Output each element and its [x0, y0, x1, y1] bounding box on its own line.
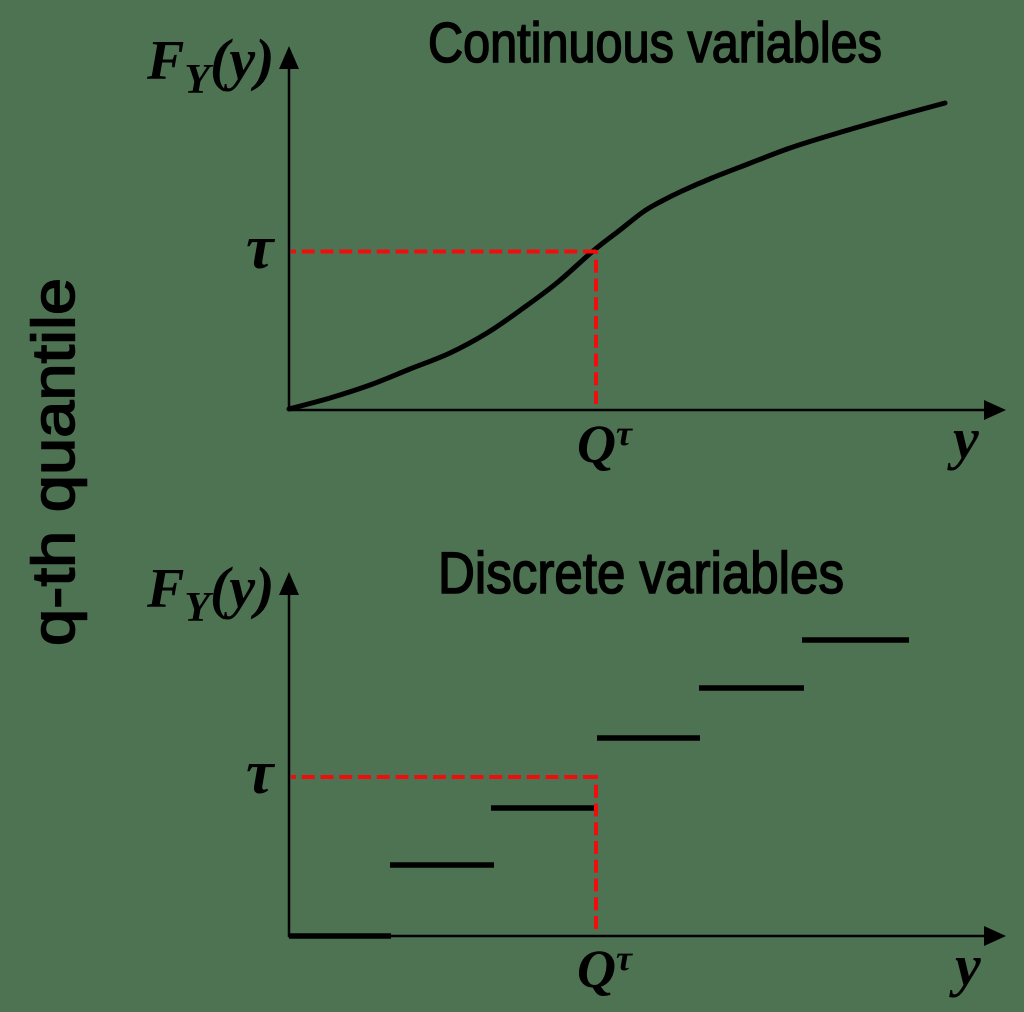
bottom plot x-axis line [288, 935, 990, 938]
top plot y-axis arrowhead [279, 46, 299, 69]
bottom plot step segment 1 [289, 933, 391, 939]
top plot x-axis line [288, 409, 990, 412]
bottom plot step segment 4 [597, 735, 700, 741]
bottom plot x-axis arrowhead [984, 926, 1006, 946]
bottom plot step segment 5 [699, 685, 804, 691]
svg-text:FY(y): FY(y) [146, 27, 274, 103]
top plot y-axis line [288, 62, 291, 411]
bottom plot step segment 6 [802, 637, 909, 643]
svg-text:q-th quantile: q-th quantile [20, 278, 87, 646]
bottom plot y-axis line [288, 588, 291, 937]
top plot red dashed horizontal line at tau [291, 250, 596, 254]
bottom plot y-axis arrowhead [279, 572, 299, 595]
bottom plot step segment 2 [390, 862, 494, 868]
bottom plot red dashed vertical line at Q^tau [594, 775, 598, 934]
top plot CDF curve [289, 103, 945, 409]
bottom plot red dashed horizontal line at tau [291, 775, 596, 779]
svg-text:Discrete variables: Discrete variables [438, 541, 844, 606]
top plot red dashed vertical line at Q^tau [594, 250, 598, 408]
svg-text:FY(y): FY(y) [146, 555, 274, 631]
bottom plot step segment 3 [491, 805, 597, 811]
svg-text:Continuous variables: Continuous variables [428, 11, 882, 75]
svg-text:τ: τ [246, 739, 276, 807]
svg-text:τ: τ [246, 214, 276, 282]
top plot x-axis arrowhead [984, 400, 1006, 420]
